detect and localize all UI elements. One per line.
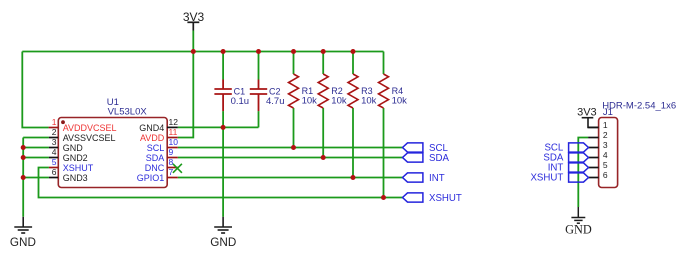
global label SDA xyxy=(403,153,450,164)
connector J1 body xyxy=(599,118,618,188)
wire pin1 AVDDVCSEL from rail xyxy=(22,52,48,128)
svg-text:HDR-M-2.54_1x6: HDR-M-2.54_1x6 xyxy=(602,101,676,112)
svg-text:6: 6 xyxy=(52,167,57,177)
wire R4 bottom xyxy=(383,108,385,198)
resistor R2 xyxy=(318,74,347,108)
pin 5 XSHUT xyxy=(49,157,94,173)
connector pin 5 xyxy=(588,160,608,170)
wire INT net xyxy=(178,177,403,179)
ground middle xyxy=(214,217,232,233)
op-amp U1 body xyxy=(58,118,167,188)
resistor R1 xyxy=(289,74,318,108)
junction rail R3 xyxy=(351,49,356,54)
wire pin6 GND3 xyxy=(23,177,49,179)
pin 3 GND xyxy=(49,137,83,153)
capacitor C1 xyxy=(214,80,231,112)
junction gnd pin4 xyxy=(21,155,26,160)
wire SDA net xyxy=(178,157,403,159)
pin 2 AVSSVCSEL xyxy=(49,127,116,143)
connector pin 3 xyxy=(588,140,608,150)
svg-text:12: 12 xyxy=(169,117,179,127)
wire C1 top xyxy=(222,52,224,80)
svg-text:AVDD: AVDD xyxy=(140,133,165,143)
wire R3 top xyxy=(352,52,354,75)
global label SCL right xyxy=(544,143,588,154)
U1 value VL53L0X xyxy=(108,107,148,118)
svg-text:J1: J1 xyxy=(603,107,613,118)
svg-text:4.7u: 4.7u xyxy=(266,96,285,107)
wire R1 bottom xyxy=(293,108,295,148)
svg-text:4: 4 xyxy=(603,150,608,160)
wire 3V3 rail xyxy=(22,51,383,53)
junction gnd pin3 xyxy=(21,145,26,150)
junction SCL R1 xyxy=(291,145,296,150)
svg-text:AVDDVCSEL: AVDDVCSEL xyxy=(63,123,117,133)
wire R3 bottom xyxy=(352,108,354,178)
global label SCL xyxy=(403,143,449,154)
svg-text:1: 1 xyxy=(603,120,608,130)
svg-text:11: 11 xyxy=(169,127,178,137)
svg-text:0.1u: 0.1u xyxy=(231,96,250,107)
junction rail C2 xyxy=(256,49,261,54)
resistor R3 xyxy=(348,74,377,108)
svg-text:3V3: 3V3 xyxy=(577,106,597,118)
junction rail C1 xyxy=(221,49,226,54)
power symbol 3V3 right xyxy=(582,118,599,128)
svg-text:10k: 10k xyxy=(302,96,318,107)
wire pin4 GND2 xyxy=(23,157,49,159)
wire C2 bottom xyxy=(258,111,260,127)
wire R2 bottom xyxy=(322,108,324,158)
power label 3V3 right xyxy=(577,106,597,118)
pin-1 marker dot xyxy=(61,120,65,124)
svg-text:GND2: GND2 xyxy=(63,153,88,163)
junction XSHUT R4 xyxy=(381,195,386,200)
resistor R4 xyxy=(379,74,408,108)
global label INT xyxy=(403,173,445,184)
no-connect X on pin 8 xyxy=(173,164,182,173)
wire C2 top xyxy=(258,52,260,80)
svg-text:GND: GND xyxy=(10,236,36,249)
pin 8 DNC xyxy=(145,157,178,173)
svg-text:4: 4 xyxy=(52,147,57,157)
connector pin 1 xyxy=(588,120,608,130)
pin 6 GND3 xyxy=(49,167,88,183)
junction rail R2 xyxy=(321,49,326,54)
pin 4 GND2 xyxy=(49,147,88,163)
global label XSHUT xyxy=(403,193,462,204)
wire SCL net xyxy=(178,147,403,149)
svg-text:SCL: SCL xyxy=(147,143,165,153)
ground left xyxy=(14,217,32,233)
svg-text:10k: 10k xyxy=(392,96,408,107)
svg-text:9: 9 xyxy=(169,147,174,157)
svg-text:3: 3 xyxy=(52,137,57,147)
svg-text:8: 8 xyxy=(169,157,174,167)
power label 3V3 xyxy=(183,10,205,24)
global label XSHUT right xyxy=(530,173,588,184)
svg-text:GND: GND xyxy=(63,143,83,153)
wire GND4 net xyxy=(178,126,259,128)
svg-text:SDA: SDA xyxy=(146,153,165,163)
ground right xyxy=(571,207,585,223)
wire GND left vertical xyxy=(22,138,24,217)
global label INT right xyxy=(548,163,589,174)
svg-text:GND3: GND3 xyxy=(63,173,88,183)
svg-text:XSHUT: XSHUT xyxy=(63,163,94,173)
svg-text:GND: GND xyxy=(565,223,592,237)
wire connector pin2 to GND xyxy=(578,138,588,208)
pin 12 GND4 xyxy=(139,117,178,133)
svg-text:GND: GND xyxy=(210,236,236,249)
wire R1 top xyxy=(293,52,295,75)
svg-text:6: 6 xyxy=(603,170,608,180)
wire middle GND vertical xyxy=(222,127,224,216)
svg-text:10: 10 xyxy=(169,137,179,147)
connector J1 value HDR-M-2.54_1x6 xyxy=(602,101,676,112)
wire pin2 AVSSVCSEL xyxy=(23,137,49,139)
wire R2 top xyxy=(322,52,324,75)
wire 3V3 drop to AVDD xyxy=(178,31,194,138)
wire XSHUT from pin5 xyxy=(39,168,403,198)
svg-text:VL53L0X: VL53L0X xyxy=(108,107,148,118)
connector J1 reference xyxy=(603,107,613,118)
pin 7 GPIO1 xyxy=(137,167,178,183)
junction INT R3 xyxy=(351,175,356,180)
junction rail 3V3 xyxy=(191,49,196,54)
junction gnd pin6 xyxy=(21,175,26,180)
global label SDA right xyxy=(543,153,588,164)
connector pin 4 xyxy=(588,150,608,160)
svg-text:2: 2 xyxy=(603,130,608,140)
pin 10 SCL xyxy=(147,137,178,153)
connector pin 2 xyxy=(588,130,608,140)
svg-text:AVSSVCSEL: AVSSVCSEL xyxy=(63,133,116,143)
svg-text:INT: INT xyxy=(429,173,445,184)
capacitor C2 xyxy=(250,80,267,112)
U1 reference xyxy=(107,97,119,108)
connector pin 6 xyxy=(588,170,608,180)
svg-text:5: 5 xyxy=(603,160,608,170)
junction GND4 C1 xyxy=(221,125,226,130)
svg-text:5: 5 xyxy=(52,157,57,167)
pin 1 AVDDVCSEL xyxy=(49,117,117,133)
svg-text:XSHUT: XSHUT xyxy=(530,173,563,184)
svg-text:DNC: DNC xyxy=(145,163,165,173)
svg-text:SDA: SDA xyxy=(429,153,449,164)
svg-text:GPIO1: GPIO1 xyxy=(137,173,165,183)
power symbol 3V3 xyxy=(187,22,199,30)
svg-text:1: 1 xyxy=(52,117,57,127)
svg-text:10k: 10k xyxy=(361,96,377,107)
junction rail R1 xyxy=(291,49,296,54)
svg-text:10k: 10k xyxy=(331,96,347,107)
svg-text:2: 2 xyxy=(52,127,57,137)
svg-text:XSHUT: XSHUT xyxy=(429,193,462,204)
wire C1 bottom xyxy=(222,111,224,127)
wire pin3 GND xyxy=(23,147,49,149)
pin 11 AVDD xyxy=(140,127,178,143)
svg-text:3: 3 xyxy=(603,140,608,150)
pin 9 SDA xyxy=(146,147,178,163)
svg-text:GND4: GND4 xyxy=(139,123,164,133)
wire R4 top xyxy=(383,52,385,75)
junction SDA R2 xyxy=(321,155,326,160)
